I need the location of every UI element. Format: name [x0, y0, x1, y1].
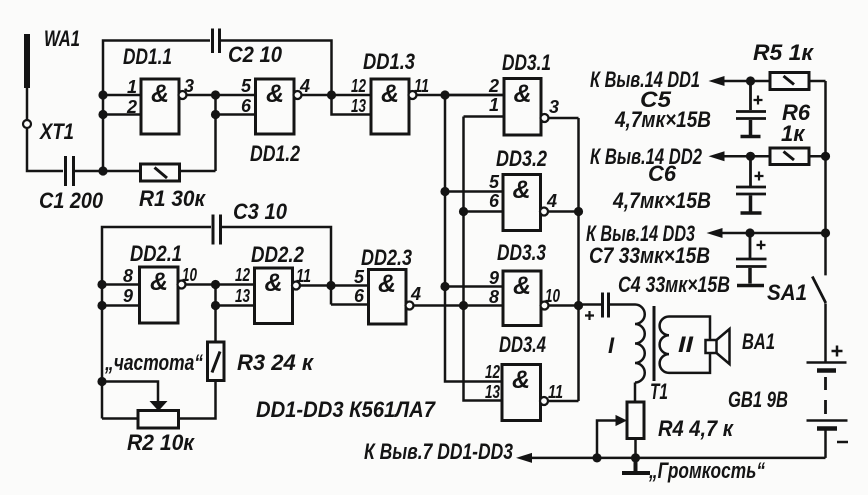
svg-text:C4 33мк×15В: C4 33мк×15В	[618, 272, 730, 297]
wire R2 left	[102, 417, 138, 420]
gate DD2.1	[140, 267, 179, 323]
junction dot C5 tap	[746, 76, 755, 85]
svg-text:12: 12	[351, 76, 366, 96]
svg-text:DD2.1: DD2.1	[130, 241, 182, 266]
battery dashed link	[824, 377, 827, 414]
svg-text:2: 2	[126, 97, 137, 117]
gate DD3.2	[503, 175, 541, 231]
svg-text:&: &	[513, 80, 531, 108]
svg-text:5: 5	[489, 172, 500, 192]
plus sign C6	[755, 172, 764, 181]
wire R3 bottom to R2 right	[179, 381, 216, 419]
svg-text:DD1.1: DD1.1	[123, 44, 172, 69]
connector XT1	[23, 120, 31, 128]
wire DD1.3 out	[416, 94, 504, 97]
junction dot bus DD3	[821, 228, 830, 237]
bus DD2.3 out (x=463.5)	[464, 117, 503, 401]
svg-text:R2 10к: R2 10к	[127, 430, 196, 455]
gate DD2.2	[255, 268, 293, 324]
svg-text:12: 12	[485, 362, 500, 382]
node B vertical (R1 right / DD1.2 inputs)	[214, 95, 217, 171]
ground C5	[741, 120, 761, 137]
svg-text:&: &	[150, 268, 168, 296]
gate DD1.1	[141, 79, 179, 134]
inversion bubble DD1.3	[409, 91, 417, 99]
junction dot bus2 / DD3.2 pin6	[459, 207, 468, 216]
svg-text:DD3.2: DD3.2	[496, 146, 548, 171]
junction dot bus1 / DD3.2 pin5	[440, 187, 449, 196]
arrowhead K vyv.14 DD3	[707, 228, 723, 238]
svg-text:&: &	[381, 80, 399, 108]
wire C4 to T1 primary	[610, 303, 635, 306]
junction dot node D pin13	[211, 301, 220, 310]
svg-text:&: &	[264, 269, 282, 297]
wire DD1.2 out to DD1.3	[301, 94, 371, 97]
capacitor C5	[736, 81, 766, 119]
wire XT1 to C1	[27, 128, 63, 171]
svg-text:5: 5	[241, 76, 252, 96]
wire DD2.1 pin9	[102, 304, 140, 307]
svg-text:2: 2	[488, 76, 499, 96]
wire to power bus DD3	[722, 232, 826, 235]
svg-text:&: &	[512, 366, 530, 394]
arrowhead K vyv.14 DD2	[709, 151, 725, 161]
junction dot bus2 / DD2.3 out	[459, 301, 468, 310]
wire DD2.1 out to DD2.2	[185, 283, 255, 286]
inversion bubble DD3.4	[540, 397, 548, 405]
svg-text:„частота“: „частота“	[104, 350, 203, 375]
svg-text:К Выв.14 DD2: К Выв.14 DD2	[590, 144, 703, 169]
junction dot DD1.3 out bus	[440, 90, 449, 99]
inversion bubble DD2.1	[178, 281, 186, 289]
wire C1 to node A	[75, 170, 103, 173]
svg-text:13: 13	[235, 286, 250, 306]
resistor R6	[770, 148, 809, 165]
inversion bubble DD2.3	[406, 302, 414, 310]
wire DD1.3 pin13	[332, 95, 372, 115]
svg-text:C7 33мк×15В: C7 33мк×15В	[589, 243, 710, 268]
inversion bubble DD2.2	[292, 282, 300, 290]
svg-text:DD1.2: DD1.2	[250, 141, 301, 166]
junction dot DD1.2 out / C2	[327, 90, 336, 99]
junction dot DD2.1 pin8	[97, 280, 106, 289]
plus sign C7	[757, 241, 766, 250]
wire DD3.1 out	[548, 117, 579, 120]
arrowhead K vyv.7	[516, 453, 532, 463]
svg-text:C3 10: C3 10	[233, 199, 288, 224]
wire R6 right	[809, 155, 826, 158]
junction dot R4 / rail	[631, 453, 640, 462]
wire DD2.2 out to DD2.3 pin5	[300, 284, 369, 287]
antenna WA1	[24, 34, 30, 88]
junction dot DD1.1 pin1	[98, 90, 107, 99]
resistor R5	[770, 73, 809, 90]
wire T1 primary to R4	[634, 383, 637, 403]
svg-text:XT1: XT1	[38, 119, 74, 144]
svg-text:DD3.4: DD3.4	[499, 332, 546, 357]
svg-text:R5 1к: R5 1к	[753, 40, 815, 65]
junction dot R6 / bus	[821, 152, 830, 161]
battery GB1 plus plate	[807, 361, 847, 364]
capacitor C4	[603, 293, 609, 318]
plus sign C5	[754, 96, 763, 105]
junction dot bus1 / DD3.3 pin9	[440, 282, 449, 291]
capacitor C6	[736, 156, 766, 194]
svg-text:C1 200: C1 200	[39, 188, 104, 213]
transformer T1 primary winding I	[635, 305, 645, 383]
ground C6	[741, 196, 762, 214]
svg-text:9: 9	[123, 286, 133, 306]
gate DD1.3	[371, 79, 409, 134]
transformer T1 secondary winding II	[660, 317, 669, 373]
wire DD1.1 pin2	[103, 113, 141, 116]
junction dot wiper / rail	[592, 453, 601, 462]
svg-text:6: 6	[241, 96, 252, 116]
svg-text:&: &	[512, 176, 530, 204]
wire DD2.3 pin6	[331, 303, 369, 306]
wire DD3.3 out	[548, 304, 579, 307]
wire DD2.2 pin13	[216, 304, 255, 307]
svg-text:1: 1	[489, 95, 499, 115]
svg-text:R3 24 к: R3 24 к	[237, 350, 315, 375]
svg-text:К Выв.7 DD1-DD3: К Выв.7 DD1-DD3	[364, 439, 513, 464]
node D vertical (R3 top)	[214, 285, 217, 343]
svg-text:T1: T1	[650, 379, 668, 404]
wire SA1 to battery	[824, 304, 827, 363]
inversion bubble DD1.2	[294, 91, 302, 99]
resistor R1	[141, 164, 180, 181]
power bus vertical	[824, 81, 827, 275]
svg-text:DD2.3: DD2.3	[361, 245, 412, 270]
svg-text:3: 3	[549, 97, 559, 117]
gate DD3.4	[502, 365, 541, 421]
inversion bubble DD3.3	[541, 302, 549, 310]
capacitor C2	[213, 29, 220, 54]
bottom rail	[531, 457, 826, 460]
T1 core	[653, 306, 656, 381]
wire DD2.3 out to DD3 bus	[413, 304, 503, 307]
R2 wiper arrowhead	[150, 401, 168, 411]
wire secondary bottom to speaker	[669, 353, 710, 373]
R4 wiper wire	[597, 421, 617, 458]
junction dot outbus DD3.2	[574, 207, 583, 216]
wire R1 right	[180, 170, 216, 173]
capacitor C7	[736, 233, 767, 267]
svg-text:„Громкость“: „Громкость“	[648, 458, 765, 483]
plus sign C4	[585, 311, 594, 320]
capacitor C3	[213, 215, 221, 245]
wire WA1 to XT1	[26, 88, 29, 120]
inversion bubble DD1.1	[179, 91, 187, 99]
svg-text:WA1: WA1	[44, 26, 80, 51]
svg-text:6: 6	[489, 191, 500, 211]
wire to R5	[723, 80, 770, 83]
resistor R2 (potentiometer)	[138, 411, 179, 429]
svg-text:I: I	[608, 333, 615, 358]
wire R1 left	[103, 170, 141, 173]
junction dot C7 tap	[745, 228, 754, 237]
svg-text:DD3.1: DD3.1	[502, 50, 551, 75]
svg-text:R1 30к: R1 30к	[139, 186, 207, 211]
svg-text:8: 8	[489, 287, 499, 307]
junction dot DD2.2 out / C3	[326, 281, 335, 290]
wire to R6	[723, 155, 770, 158]
svg-text:4,7мк×15В: 4,7мк×15В	[612, 188, 711, 213]
svg-text:&: &	[513, 272, 531, 300]
svg-text:5: 5	[354, 267, 365, 287]
svg-text:4,7мк×15В: 4,7мк×15В	[614, 107, 711, 132]
wire battery to rail	[824, 429, 827, 458]
gate DD3.3	[503, 271, 541, 326]
svg-text:DD2.2: DD2.2	[251, 242, 305, 267]
wire DD3.1 pin2	[445, 94, 504, 97]
wire DD1.2 pin6	[216, 113, 256, 116]
svg-text:12: 12	[235, 265, 250, 285]
ground C7	[737, 268, 764, 286]
svg-text:6: 6	[354, 286, 365, 306]
battery GB1 minus plate (top cell)	[817, 368, 836, 373]
arrowhead K vyv.14 DD1	[709, 76, 725, 86]
inversion bubble DD3.2	[540, 208, 548, 216]
svg-text:SA1: SA1	[767, 280, 807, 305]
wire R5 right	[809, 80, 826, 83]
ground symbol (common)	[622, 458, 650, 473]
svg-text:&: &	[378, 270, 396, 298]
wire C2 to DD1.2 output node	[221, 41, 332, 96]
svg-text:1к: 1к	[781, 121, 806, 146]
wire DD3.1 pin1	[464, 115, 505, 118]
svg-text:8: 8	[123, 266, 133, 286]
svg-text:9: 9	[489, 268, 499, 288]
battery GB1 plus plate (bottom cell)	[807, 419, 848, 422]
wire R4 bottom	[634, 439, 637, 458]
junction dot node B top	[211, 90, 220, 99]
svg-text:GB1 9В: GB1 9В	[728, 387, 788, 412]
svg-text:&: &	[151, 80, 169, 108]
speaker BA1	[706, 340, 717, 353]
svg-text:R4 4,7 к: R4 4,7 к	[658, 416, 735, 441]
node A bus (DD1.1 inputs)	[103, 41, 210, 172]
resistor R4 (potentiometer)	[627, 402, 644, 439]
R4 wiper arrowhead	[616, 415, 628, 426]
svg-text:II: II	[678, 332, 694, 357]
wire secondary top to speaker	[669, 317, 710, 341]
junction dot outbus DD3.3 / C4	[574, 301, 583, 310]
R2 wiper wire	[102, 382, 158, 403]
junction dot node B pin6	[211, 110, 220, 119]
svg-text:1: 1	[127, 77, 137, 97]
svg-text:11: 11	[548, 382, 563, 402]
inversion bubble DD3.1	[541, 114, 549, 122]
junction dot node A / C1 / R1	[98, 166, 107, 175]
junction dot DD2.1 pin9	[97, 301, 106, 310]
svg-text:&: &	[266, 80, 284, 108]
svg-text:13: 13	[351, 96, 366, 116]
capacitor C1	[66, 156, 74, 186]
svg-text:DD1-DD3 К561ЛА7: DD1-DD3 К561ЛА7	[256, 397, 437, 422]
gate DD3.1	[504, 79, 541, 136]
wire DD2.1 pin8	[102, 283, 140, 286]
svg-text:DD1.3: DD1.3	[363, 49, 415, 74]
svg-text:DD3.3: DD3.3	[497, 240, 546, 265]
resistor R3	[208, 342, 225, 381]
switch SA1 blade	[812, 277, 826, 304]
junction dot C6 tap	[746, 152, 755, 161]
wire outbus to C4	[579, 303, 602, 306]
wire DD1.1 out to DD1.2 inputs	[186, 94, 256, 97]
gate DD1.2	[256, 79, 295, 134]
wire DD3.4 out	[548, 400, 579, 403]
svg-text:13: 13	[485, 382, 500, 402]
wire DD3.2 pin5	[445, 190, 503, 193]
wire DD1.1 pin1	[103, 94, 141, 97]
output bus (x=578.5)	[577, 118, 580, 401]
svg-text:C2 10: C2 10	[228, 42, 283, 67]
junction dot node D top	[211, 280, 220, 289]
minus sign battery	[837, 441, 848, 444]
battery GB1 minus plate	[817, 426, 837, 431]
node C bus (DD2.1 inputs)	[102, 227, 211, 419]
plus sign battery	[832, 346, 843, 357]
wire DD3.2 pin6	[464, 210, 504, 213]
svg-text:BA1: BA1	[742, 329, 775, 354]
junction dot DD1.1 pin2	[98, 110, 107, 119]
wire DD3.2 out	[548, 210, 579, 213]
svg-text:C6: C6	[648, 161, 677, 186]
wire C3 to DD2.2 output node	[222, 227, 331, 305]
wire DD3.3 pin9	[445, 285, 503, 288]
gate DD2.3	[369, 270, 407, 325]
bus DD1.3 out (x=445)	[445, 95, 502, 382]
junction dot wiper tap	[97, 377, 106, 386]
